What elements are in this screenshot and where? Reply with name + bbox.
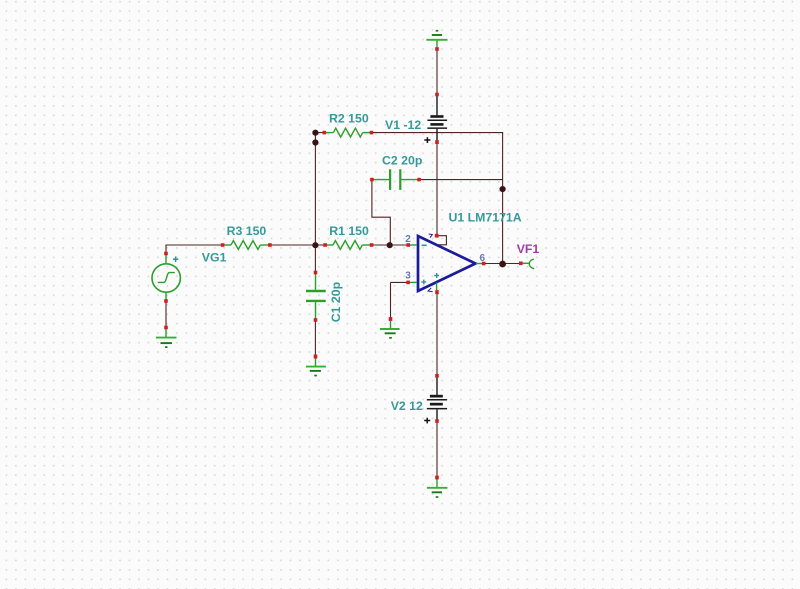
ground (C1) bbox=[306, 357, 326, 377]
op-amp plus marker (inner) bbox=[434, 273, 439, 278]
svg-text:R1 150: R1 150 bbox=[329, 224, 369, 238]
svg-text:C1 20p: C1 20p bbox=[329, 282, 343, 322]
svg-text:V1 -12: V1 -12 bbox=[385, 118, 421, 132]
ground (op-amp pin3) bbox=[380, 319, 400, 339]
wire bbox=[165, 245, 167, 254]
voltage probe VF1 bbox=[521, 259, 534, 269]
wire bbox=[502, 133, 504, 264]
wire bbox=[436, 292, 438, 376]
op-amp input/output leads bbox=[408, 245, 484, 292]
resistor R1 bbox=[325, 241, 372, 250]
op-amp plus marker (input) bbox=[421, 280, 426, 285]
svg-text:U1 LM7171A: U1 LM7171A bbox=[449, 210, 522, 224]
svg-text:R3 150: R3 150 bbox=[227, 224, 267, 238]
wire bbox=[390, 282, 392, 319]
node junction dots bbox=[312, 130, 318, 136]
op-amp tiny pin7 glyph bbox=[429, 234, 433, 238]
wire bbox=[270, 244, 325, 246]
ground (top, inverted) bbox=[426, 30, 447, 49]
wire bbox=[315, 132, 324, 134]
wire bbox=[314, 245, 316, 273]
ground (V2) bbox=[427, 478, 448, 498]
wire bbox=[484, 263, 521, 265]
battery V2 bbox=[427, 377, 447, 421]
op-amp U1 bbox=[418, 236, 476, 291]
svg-text:3: 3 bbox=[405, 270, 411, 281]
wire bbox=[419, 179, 503, 181]
wire bbox=[372, 244, 409, 246]
capacitor C2 bbox=[372, 169, 419, 190]
wire bbox=[372, 180, 390, 245]
wire bbox=[165, 301, 167, 328]
svg-text:6: 6 bbox=[480, 253, 486, 264]
op-amp tiny pin4 glyph bbox=[428, 288, 433, 292]
svg-text:VF1: VF1 bbox=[517, 242, 540, 256]
voltage source VG1 bbox=[152, 254, 180, 302]
svg-text:C2 20p: C2 20p bbox=[382, 154, 422, 168]
resistor R2 bbox=[324, 128, 371, 137]
wire bbox=[166, 244, 223, 246]
svg-text:VG1: VG1 bbox=[202, 250, 227, 264]
wire op-amp pin7 jog bbox=[437, 236, 446, 245]
wire bbox=[314, 320, 316, 357]
wire bbox=[372, 132, 504, 134]
ground (VG1) bbox=[156, 328, 177, 349]
op-amp minus marker bbox=[422, 244, 427, 246]
resistor R3 bbox=[223, 241, 270, 250]
wire bbox=[436, 421, 438, 478]
plus sign of V1 bbox=[424, 137, 430, 143]
svg-text:R2 150: R2 150 bbox=[329, 111, 369, 125]
wire bbox=[391, 281, 409, 283]
red pin marks bbox=[164, 47, 522, 479]
plus sign of VG1 bbox=[173, 257, 178, 263]
wire bbox=[314, 133, 316, 245]
wire bbox=[436, 142, 438, 236]
plus sign of V2 bbox=[424, 418, 430, 424]
battery V1 bbox=[427, 96, 447, 142]
capacitor C1 bbox=[306, 273, 326, 321]
wire bbox=[436, 49, 438, 95]
svg-text:2: 2 bbox=[405, 234, 411, 245]
svg-text:V2 12: V2 12 bbox=[391, 399, 423, 413]
